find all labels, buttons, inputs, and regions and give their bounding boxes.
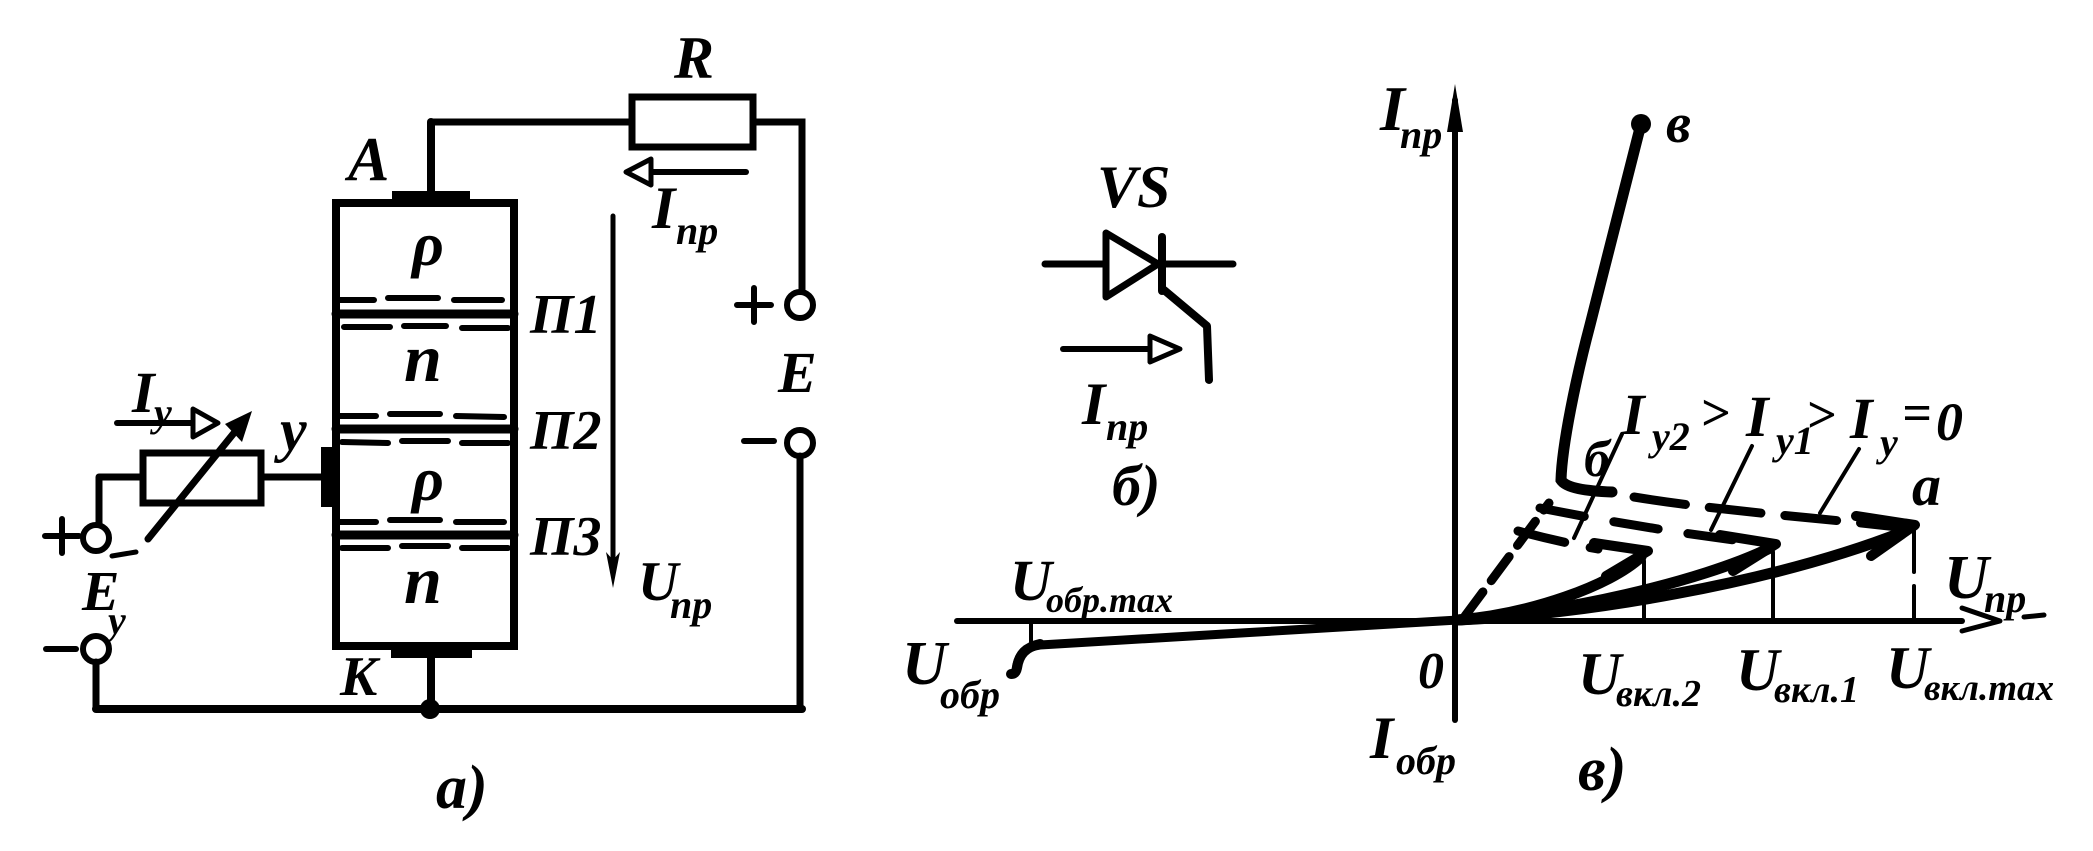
svg-text:у2: у2 bbox=[1648, 414, 1690, 459]
svg-text:П1: П1 bbox=[529, 284, 602, 346]
svg-text:K: K bbox=[339, 646, 381, 708]
svg-text:пр: пр bbox=[1400, 112, 1442, 157]
svg-text:ρ: ρ bbox=[410, 446, 444, 514]
svg-text:ρ: ρ bbox=[410, 211, 444, 279]
svg-text:>: > bbox=[1806, 387, 1836, 444]
svg-text:у: у bbox=[104, 598, 126, 643]
svg-text:>: > bbox=[1700, 385, 1730, 442]
svg-text:I: I bbox=[1081, 371, 1108, 437]
svg-text:I: I bbox=[1745, 384, 1771, 449]
svg-text:обр: обр bbox=[940, 672, 1000, 717]
svg-text:у: у bbox=[1876, 420, 1898, 465]
svg-text:пр: пр bbox=[1106, 404, 1148, 449]
svg-text:VS: VS bbox=[1097, 154, 1170, 220]
svg-text:обр: обр bbox=[1396, 738, 1456, 783]
svg-text:I: I bbox=[651, 175, 678, 241]
svg-text:n: n bbox=[404, 320, 442, 396]
svg-text:E: E bbox=[777, 340, 817, 405]
svg-text:вкл.max: вкл.max bbox=[1924, 668, 2054, 709]
svg-text:=: = bbox=[1902, 385, 1932, 442]
svg-text:а: а bbox=[1912, 453, 1941, 518]
svg-text:в: в bbox=[1666, 93, 1691, 155]
svg-text:I: I bbox=[1369, 705, 1396, 771]
svg-text:I: I bbox=[1849, 386, 1875, 451]
svg-text:n: n bbox=[404, 542, 442, 618]
svg-text:в): в) bbox=[1578, 736, 1626, 804]
svg-text:0: 0 bbox=[1936, 392, 1963, 452]
svg-text:П2: П2 bbox=[529, 400, 602, 462]
svg-text:у: у bbox=[150, 390, 172, 435]
svg-text:вкл.2: вкл.2 bbox=[1616, 673, 1701, 715]
svg-text:б): б) bbox=[1112, 453, 1160, 518]
svg-text:R: R bbox=[673, 25, 714, 91]
svg-text:а): а) bbox=[436, 754, 488, 822]
svg-text:П3: П3 bbox=[529, 506, 602, 568]
svg-text:пр: пр bbox=[1984, 576, 2026, 621]
svg-text:вкл.1: вкл.1 bbox=[1774, 669, 1859, 711]
svg-text:A: A bbox=[344, 126, 389, 194]
svg-text:пр: пр bbox=[670, 582, 712, 627]
svg-text:обр.max: обр.max bbox=[1046, 580, 1173, 620]
svg-text:б: б bbox=[1584, 431, 1612, 488]
svg-text:пр: пр bbox=[676, 208, 718, 253]
svg-text:0: 0 bbox=[1418, 643, 1444, 700]
svg-text:I: I bbox=[1621, 382, 1647, 447]
